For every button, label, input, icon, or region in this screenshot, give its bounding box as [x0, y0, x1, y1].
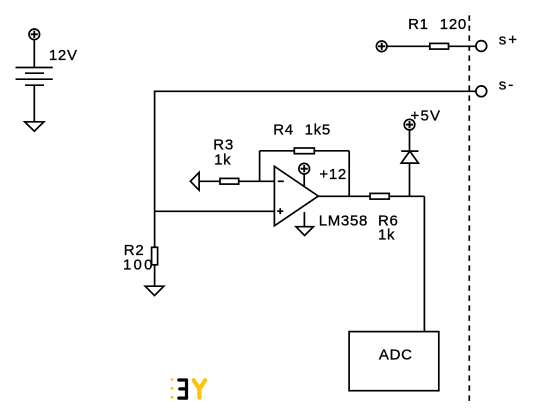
- wire feedback left leg: [259, 151, 261, 182]
- svg-text:R4: R4: [273, 122, 294, 139]
- port arrow (input): [190, 172, 199, 190]
- wire: [33, 40, 35, 68]
- wire ground stub: [303, 212, 305, 227]
- resistor R1: [430, 43, 449, 49]
- ground: [145, 286, 164, 295]
- svg-text:1k: 1k: [378, 227, 395, 244]
- wire: [199, 180, 220, 182]
- op-amp +12 supply terminal: [299, 163, 310, 174]
- svg-text:100: 100: [123, 256, 155, 273]
- resistor R6: [370, 193, 389, 199]
- wire: [449, 45, 476, 47]
- wire to ADC: [423, 196, 425, 331]
- op-amp U1 LM358: [274, 166, 318, 226]
- wire (- input): [239, 180, 275, 182]
- svg-text:ADC: ADC: [379, 347, 413, 364]
- wire: [389, 195, 424, 197]
- resistor R2: [152, 247, 158, 264]
- logo dots: [171, 378, 174, 399]
- op-amp minus sign: [278, 180, 284, 182]
- dashed boundary line: [468, 15, 470, 402]
- resistor R3: [220, 178, 239, 184]
- svg-text:R1: R1: [408, 16, 429, 33]
- svg-text:+5V: +5V: [411, 108, 442, 125]
- svg-text:1k: 1k: [214, 151, 231, 168]
- wire (+ input): [155, 210, 275, 212]
- wire: [154, 265, 156, 286]
- wire feedback top: [260, 150, 295, 152]
- node + (R1 left terminal): [376, 41, 387, 52]
- svg-text:+12: +12: [319, 166, 347, 183]
- port s+ terminal: [476, 41, 487, 52]
- diode D1: [401, 151, 418, 163]
- battery V1 12V: [16, 68, 53, 86]
- wire output: [318, 195, 370, 197]
- svg-text:12V: 12V: [49, 47, 78, 64]
- wire: [409, 130, 411, 151]
- ground: [25, 122, 44, 131]
- wire: [33, 85, 35, 122]
- wire: [409, 163, 411, 196]
- svg-text:1k5: 1k5: [305, 122, 331, 139]
- svg-text:LM358: LM358: [319, 213, 368, 230]
- port s- terminal: [476, 86, 487, 97]
- wire s-: [155, 91, 476, 247]
- logo E glyph: [179, 380, 187, 398]
- wire supply stub: [303, 174, 305, 187]
- wire feedback right leg: [348, 151, 350, 197]
- ADC box: [349, 332, 439, 391]
- svg-text:120: 120: [440, 16, 467, 33]
- op-amp plus sign: [277, 208, 283, 214]
- battery V1 + terminal: [29, 29, 40, 40]
- svg-text:s+: s+: [499, 31, 519, 48]
- ground: [296, 227, 313, 236]
- logo Y glyph: [194, 380, 206, 398]
- resistor R4: [294, 148, 314, 154]
- svg-text:s-: s-: [499, 77, 516, 94]
- wire feedback top right: [314, 150, 349, 152]
- +5V supply terminal: [404, 119, 415, 130]
- wire: [387, 45, 430, 47]
